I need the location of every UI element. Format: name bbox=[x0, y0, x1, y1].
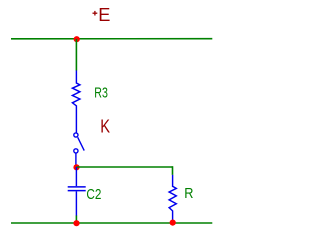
svg-text:K: K bbox=[100, 117, 110, 137]
svg-text:R: R bbox=[184, 186, 193, 202]
svg-text:R3: R3 bbox=[94, 85, 108, 101]
wire right branch vertical stub bbox=[172, 166, 174, 175]
wire top rail bbox=[11, 38, 212, 40]
svg-text:C2: C2 bbox=[86, 187, 101, 203]
wire from top node down to R3 bbox=[75, 39, 77, 71]
node top junction bbox=[74, 36, 80, 42]
svg-text:E: E bbox=[98, 5, 110, 25]
wire middle horizontal to right branch bbox=[77, 166, 173, 168]
capacitor C2 bbox=[68, 167, 86, 216]
node bottom-right junction bbox=[170, 220, 176, 226]
resistor R3 bbox=[72, 71, 80, 133]
wire below C2 to bottom rail bbox=[75, 216, 77, 224]
node bottom-left junction bbox=[73, 220, 79, 226]
label +E (supply net) bbox=[93, 11, 98, 16]
resistor R bbox=[169, 175, 176, 223]
node middle junction bbox=[73, 164, 79, 170]
switch K bbox=[74, 133, 84, 165]
wire bottom rail bbox=[11, 222, 212, 224]
